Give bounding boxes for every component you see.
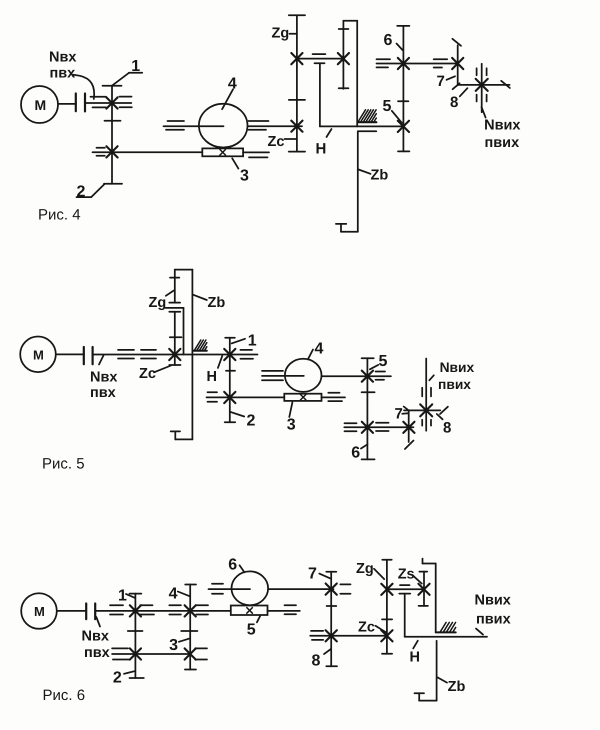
label 7 (fig.4) xyxy=(437,73,456,90)
countershaft 7-8 (fig.6) xyxy=(326,572,337,667)
gear 6 mount X (fig.5) xyxy=(362,422,373,433)
svg-text:Рис. 4: Рис. 4 xyxy=(38,207,81,224)
rail 3 shaft right (fig.5) xyxy=(322,396,346,398)
countershaft 3-4 (fig.6) xyxy=(181,585,197,670)
svg-text:пвх: пвх xyxy=(50,65,76,81)
gear 1 mount X (fig.6) xyxy=(130,605,141,616)
label Zb (fig.5) xyxy=(193,295,225,311)
gear 8 mount X (fig.5) xyxy=(420,404,432,416)
gear 8 mount X (fig.6) xyxy=(326,630,337,641)
coupling (fig.5) xyxy=(84,347,93,364)
svg-text:Zc: Zc xyxy=(358,620,375,636)
svg-text:Zb: Zb xyxy=(448,679,466,695)
label 6 (fig.6) xyxy=(228,556,244,573)
gear 2 mount X (fig.4) xyxy=(106,146,117,157)
sun gear Zc mount X (fig.5) xyxy=(169,349,180,360)
svg-text:8: 8 xyxy=(312,653,321,670)
carrier H (fig.4) xyxy=(315,63,404,126)
gear 5 mount X (fig.4) xyxy=(398,121,409,132)
sun shaft Zg-Zc (fig.6) xyxy=(382,560,392,654)
svg-text:Nвих: Nвих xyxy=(440,360,475,375)
gear 3 rim dashes (fig.6) xyxy=(195,648,207,659)
svg-text:пвих: пвих xyxy=(476,611,511,627)
svg-text:H: H xyxy=(316,141,327,158)
bevel gear 7 mount X (fig.5) xyxy=(403,422,414,433)
friction wheel 6 (fig.6) xyxy=(232,571,269,605)
ring gear Zb (fig.4) xyxy=(336,21,376,232)
svg-text:4: 4 xyxy=(315,341,324,358)
ring gear Zb (fig.5) xyxy=(171,270,193,440)
svg-text:4: 4 xyxy=(169,585,178,602)
svg-text:5: 5 xyxy=(383,98,392,115)
planet mesh line Zg (fig.4) xyxy=(297,54,344,59)
svg-text:7: 7 xyxy=(308,566,317,583)
svg-text:Nвх: Nвх xyxy=(82,628,109,644)
bevel gear 7 (fig.5) xyxy=(404,407,414,450)
gear 6 mount X (fig.4) xyxy=(398,58,409,69)
label 3 (fig.4) xyxy=(232,158,249,184)
svg-text:пвх: пвх xyxy=(84,645,110,661)
svg-text:Nвих: Nвих xyxy=(484,118,520,134)
svg-text:H: H xyxy=(207,369,217,385)
label 4 (fig.5) xyxy=(308,341,324,360)
label 7 (fig.5) xyxy=(395,406,409,423)
label Zs (fig.6) xyxy=(398,567,422,584)
label 2 (fig.5) xyxy=(230,412,255,429)
svg-text:1: 1 xyxy=(248,332,257,349)
label 1 (fig.6) xyxy=(118,588,135,605)
label Nvh (fig.5) xyxy=(90,355,117,401)
svg-text:8: 8 xyxy=(443,420,451,437)
carrier H (fig.5) xyxy=(166,308,184,355)
countershaft 1-2 (fig.5) xyxy=(225,338,236,422)
gear 1 rim dashes (fig.5) xyxy=(240,350,253,359)
gear Zc mount X (fig.6) xyxy=(381,630,392,641)
planet shaft (fig.5) xyxy=(169,270,180,303)
caption Ris.6 xyxy=(43,687,86,704)
gear Zg mount X (fig.4) xyxy=(291,53,302,64)
svg-text:H: H xyxy=(410,650,420,666)
label 3 (fig.5) xyxy=(287,402,296,433)
friction wheel 4 (fig.5) xyxy=(285,359,322,392)
label Nvih (fig.6) xyxy=(475,592,511,634)
svg-text:Zc: Zc xyxy=(139,366,156,382)
svg-text:6: 6 xyxy=(384,32,393,49)
label Nvh (fig.4) xyxy=(49,49,94,99)
label Zg (fig.4) xyxy=(272,25,297,41)
label 3 (fig.6) xyxy=(169,637,189,654)
lower shaft to rail 3 (fig.5) xyxy=(207,396,285,398)
gear 2 rim dashes (fig.4) xyxy=(97,148,105,156)
rail 3 rect (fig.4) xyxy=(202,148,243,156)
svg-text:7: 7 xyxy=(437,73,445,90)
wheel 6 shaft dashes (fig.6) xyxy=(212,584,351,594)
shaft 5-6 vertical (fig.4) xyxy=(397,26,409,151)
shaft 6 dashes (fig.5) xyxy=(345,423,389,431)
motor M (fig.5) xyxy=(20,337,56,373)
caption Ris.4 xyxy=(38,207,81,224)
upper shaft through wheel 4 (fig.4) xyxy=(164,125,303,127)
bevel gear 7 (fig.4) xyxy=(452,39,461,89)
gear 8 rim dashes (fig.6) xyxy=(311,631,323,640)
sun gear Zc shaft (fig.5) xyxy=(169,312,181,365)
label 1 (fig.5) xyxy=(232,332,257,349)
label 8 (fig.6) xyxy=(312,649,331,670)
shaft 5-6 vertical (fig.5) xyxy=(362,358,375,459)
gear 2 rim dashes (fig.6) xyxy=(112,648,129,659)
motor shaft (fig.5) xyxy=(56,353,84,355)
motor shaft (fig.4) xyxy=(58,103,76,105)
gear 3 mount X (fig.6) xyxy=(185,648,196,659)
bevel gear 7 mount X (fig.4) xyxy=(452,58,463,69)
svg-text:8: 8 xyxy=(450,94,458,111)
label H (fig.4) xyxy=(316,129,332,158)
svg-text:6: 6 xyxy=(228,556,237,573)
shaft 6 to bevel 7 (fig.4) xyxy=(377,63,458,65)
svg-text:Zg: Zg xyxy=(149,295,167,311)
gear 2 mount X (fig.5) xyxy=(224,392,235,403)
friction wheel 4 (fig.4) xyxy=(199,104,248,148)
gear 1 rim dashes (fig.4) xyxy=(91,97,132,108)
label 2 (fig.4) xyxy=(77,184,105,201)
gear 7 mount X (fig.6) xyxy=(326,584,337,595)
rail 3 rect (fig.5) xyxy=(284,394,321,401)
svg-text:3: 3 xyxy=(287,416,296,433)
planet mesh line (fig.6) xyxy=(387,585,424,589)
svg-text:3: 3 xyxy=(240,168,249,185)
output shaft vertical (fig.5) xyxy=(425,359,427,431)
countershaft 1-2 (fig.6) xyxy=(128,594,144,678)
gear 4 rim dashes (fig.6) xyxy=(169,605,208,614)
label Zg (fig.6) xyxy=(356,561,384,579)
input shaft to gear 1 (fig.4) xyxy=(85,102,131,104)
shaft 6 to bevel 7 (fig.5) xyxy=(344,426,413,428)
caption Ris.5 xyxy=(42,456,85,473)
output cross shaft (fig.5) xyxy=(404,407,448,414)
wheel 4 shaft dashes (fig.5) xyxy=(262,371,385,380)
sun shaft Zg-Zc vertical (fig.4) xyxy=(289,15,305,151)
svg-text:M: M xyxy=(33,347,44,362)
label 6 (fig.5) xyxy=(351,444,367,461)
svg-text:Nвх: Nвх xyxy=(90,369,117,385)
svg-text:пвх: пвх xyxy=(90,385,116,401)
rail 5 rect (fig.6) xyxy=(231,606,268,616)
ring gear Zb (fig.6) xyxy=(415,559,437,701)
svg-text:Рис. 6: Рис. 6 xyxy=(43,687,86,704)
planet gear Zs mount X (fig.6) xyxy=(418,584,429,595)
label 8 (fig.5) xyxy=(437,414,452,437)
svg-text:Рис. 5: Рис. 5 xyxy=(42,456,85,473)
svg-text:2: 2 xyxy=(77,184,86,201)
label Zg (fig.5) xyxy=(149,291,174,312)
label Zc (fig.4) xyxy=(268,134,297,150)
svg-text:5: 5 xyxy=(379,353,388,370)
svg-text:Zb: Zb xyxy=(371,168,389,184)
svg-text:Zc: Zc xyxy=(268,134,285,150)
svg-text:1: 1 xyxy=(118,588,127,605)
motor shaft (fig.6) xyxy=(57,610,86,612)
label Nvh (fig.6) xyxy=(82,617,110,661)
label 6 (fig.4) xyxy=(384,32,403,50)
svg-text:Zg: Zg xyxy=(272,25,290,41)
svg-text:M: M xyxy=(35,97,47,113)
label 4 (fig.4) xyxy=(222,75,237,109)
gear 1 mount X (fig.4) xyxy=(106,97,117,108)
shaft 2-3 (fig.6) xyxy=(112,653,190,655)
label 4 (fig.6) xyxy=(169,585,190,602)
wheel 6 shaft (fig.6) xyxy=(209,588,334,590)
label Zb (fig.4) xyxy=(359,168,389,184)
main input shaft (fig.5) xyxy=(93,354,258,356)
gear 8 mount X (fig.4) xyxy=(476,79,488,91)
svg-text:3: 3 xyxy=(169,637,178,654)
label Zc (fig.6) xyxy=(358,620,386,636)
upper shaft dashes (fig.4) xyxy=(166,121,269,130)
label 8 (fig.4) xyxy=(450,88,467,111)
svg-text:Nвих: Nвих xyxy=(475,592,511,608)
main shaft (fig.6) xyxy=(95,610,300,612)
svg-text:2: 2 xyxy=(113,670,122,687)
label Zb (fig.6) xyxy=(438,677,466,695)
label 7 (fig.6) xyxy=(308,566,330,583)
planet shaft Zs (fig.6) xyxy=(419,572,428,606)
output shaft vertical (fig.4) xyxy=(481,64,483,113)
motor M (fig.6) xyxy=(21,593,57,629)
shaft rim dashes (fig.5) xyxy=(118,350,156,359)
label Nvih (fig.5) xyxy=(429,360,474,392)
carrier H output (fig.6) xyxy=(399,594,487,637)
shaft 8 to Zc (fig.6) xyxy=(310,635,387,637)
svg-text:5: 5 xyxy=(247,621,256,638)
gear Zg mount X (fig.6) xyxy=(381,584,392,595)
svg-text:M: M xyxy=(34,604,45,619)
label 5 (fig.6) xyxy=(247,616,261,638)
label 1 (fig.4) xyxy=(112,58,142,86)
svg-text:Zg: Zg xyxy=(356,561,374,577)
gear 8 width dashes (fig.5) xyxy=(422,388,431,426)
lower shaft to rail 3 (fig.4) xyxy=(93,152,270,157)
label H (fig.6) xyxy=(410,641,420,666)
label Nvih (fig.4) xyxy=(482,107,521,151)
gear Zc mount X (fig.4) xyxy=(291,121,302,132)
gear 4 mount X (fig.6) xyxy=(185,605,196,616)
shaft 6 dashes (fig.4) xyxy=(377,59,448,67)
planet gear mount X (fig.4) xyxy=(338,53,349,64)
wheel 4 shaft (fig.5) xyxy=(262,375,391,377)
planet shaft (fig.4) xyxy=(339,21,349,89)
label Zc (fig.5) xyxy=(139,366,171,383)
coupling (fig.4) xyxy=(76,94,85,112)
lower shaft dashes (fig.5) xyxy=(208,392,343,402)
svg-text:пвих: пвих xyxy=(438,377,471,392)
svg-text:Nвх: Nвх xyxy=(49,49,76,65)
gear 2 mount X (fig.6) xyxy=(130,648,141,659)
svg-text:Zb: Zb xyxy=(208,295,226,311)
svg-text:6: 6 xyxy=(351,444,360,461)
gear 5 mount X (fig.5) xyxy=(362,371,373,382)
gear 1 mount X (fig.5) xyxy=(224,349,235,360)
gear 1 rim dashes (fig.6) xyxy=(110,605,154,614)
countershaft 1-2 vertical (fig.4) xyxy=(103,86,123,184)
gear 8 width dashes (fig.4) xyxy=(477,68,487,101)
label 5 (fig.5) xyxy=(370,353,388,370)
rail 5 shaft end dashes (fig.6) xyxy=(285,605,297,614)
label 2 (fig.6) xyxy=(113,670,135,687)
output cross shaft (fig.4) xyxy=(458,81,510,88)
motor M (fig.4) xyxy=(21,86,58,123)
svg-text:2: 2 xyxy=(247,412,256,429)
label H (fig.5) xyxy=(207,356,223,385)
coupling (fig.6) xyxy=(86,604,95,620)
frame hatch on Zb (fig.5) xyxy=(193,340,207,351)
label 5 (fig.4) xyxy=(383,98,402,123)
frame hatch on Zb (fig.6) xyxy=(436,622,456,632)
svg-text:пвих: пвих xyxy=(485,135,520,151)
frame hatch on Zb (fig.4) xyxy=(358,110,377,122)
